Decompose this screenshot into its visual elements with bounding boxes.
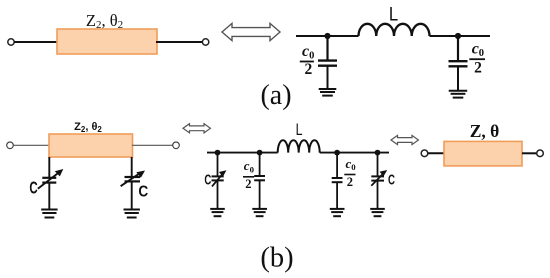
svg-text:2: 2 xyxy=(305,61,313,78)
svg-text:(b): (b) xyxy=(260,243,293,274)
svg-text:2: 2 xyxy=(347,175,353,189)
svg-text:C: C xyxy=(138,184,148,201)
svg-text:L: L xyxy=(296,121,303,139)
svg-text:2: 2 xyxy=(245,177,251,191)
svg-text:c0: c0 xyxy=(244,158,255,174)
svg-text:Z, θ: Z, θ xyxy=(470,121,500,141)
svg-text:L: L xyxy=(389,4,398,25)
svg-text:c0: c0 xyxy=(472,41,484,59)
svg-text:C: C xyxy=(29,178,37,198)
svg-text:c0: c0 xyxy=(302,43,314,61)
svg-text:Z2, θ2: Z2, θ2 xyxy=(86,11,123,31)
svg-text:(a): (a) xyxy=(260,80,291,111)
svg-text:Z2, θ2: Z2, θ2 xyxy=(74,121,102,134)
svg-text:C: C xyxy=(388,171,395,188)
svg-text:C: C xyxy=(204,171,211,188)
svg-text:2: 2 xyxy=(474,59,482,76)
svg-text:c0: c0 xyxy=(346,156,357,172)
